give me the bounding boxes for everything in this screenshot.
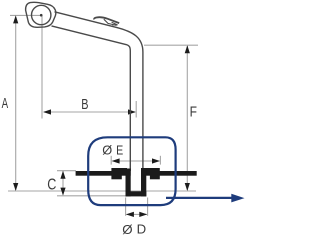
arrowhead A top: [13, 15, 18, 23]
extension line baseline outer-bottom: [57, 195, 126, 197]
rail tab bottom right: [150, 176, 160, 180]
hook eye center dot: [40, 14, 43, 17]
svg-text:F: F: [190, 105, 198, 121]
hook eye inner circle: [32, 5, 51, 24]
tube lower/inner line with bend: [52, 26, 131, 171]
dimension line C: [62, 172, 64, 195]
rail lip top right: [141, 168, 160, 172]
arrowhead F bottom: [185, 183, 190, 191]
direction arrow line: [166, 197, 233, 199]
svg-text:C: C: [47, 176, 56, 193]
extension line E right: [159, 156, 161, 165]
extension line top (A, at eye center height): [10, 14, 42, 16]
direction arrowhead: [231, 194, 244, 203]
dimension line E: [113, 160, 160, 162]
arrowhead C bottom: [60, 188, 65, 196]
rail lip top left: [111, 168, 127, 172]
extension line top (F): [144, 44, 198, 46]
svg-text:B: B: [81, 97, 88, 113]
dimension line F: [186, 46, 188, 190]
hook eye outline: [26, 2, 56, 27]
tube upper/outer line with bend: [55, 12, 143, 171]
extension line D left: [125, 198, 127, 216]
arrowhead C top: [60, 171, 65, 179]
arrowhead A bottom: [13, 183, 18, 191]
dimension line A: [15, 17, 17, 191]
rail flange bar right: [141, 171, 197, 176]
svg-text:Ø: Ø: [122, 222, 132, 237]
channel bottom: [126, 191, 147, 196]
svg-text:A: A: [2, 96, 9, 112]
svg-text:E: E: [116, 143, 123, 158]
clamp lever main bar: [94, 17, 119, 23]
detail bubble: [88, 137, 175, 205]
arrowhead D left: [126, 212, 134, 217]
arrowhead F top: [185, 45, 190, 53]
arrowhead B right: [128, 109, 136, 114]
extension line C top (flange top): [57, 170, 76, 172]
arrowhead B left: [43, 109, 51, 114]
rail flange bar left: [76, 171, 131, 176]
rail tab bottom left: [111, 176, 121, 180]
channel wall right: [141, 169, 146, 197]
arrowhead E right: [152, 158, 160, 163]
arrowhead D right: [139, 212, 147, 217]
extension line D right: [147, 198, 149, 216]
dimension line B: [44, 111, 135, 113]
extension line tube center (B): [135, 101, 137, 118]
extension line baseline inner-bottom: [8, 190, 196, 192]
extension line E left: [110, 156, 112, 165]
extension line from eye center down to B: [41, 15, 43, 118]
channel wall left: [126, 169, 131, 197]
arrowhead E left: [112, 158, 120, 163]
dimension line D: [127, 213, 147, 215]
svg-text:Ø: Ø: [102, 143, 112, 158]
clamp lever stem: [104, 19, 117, 25]
clamp lever right hook: [112, 22, 118, 25]
svg-text:D: D: [137, 222, 147, 237]
